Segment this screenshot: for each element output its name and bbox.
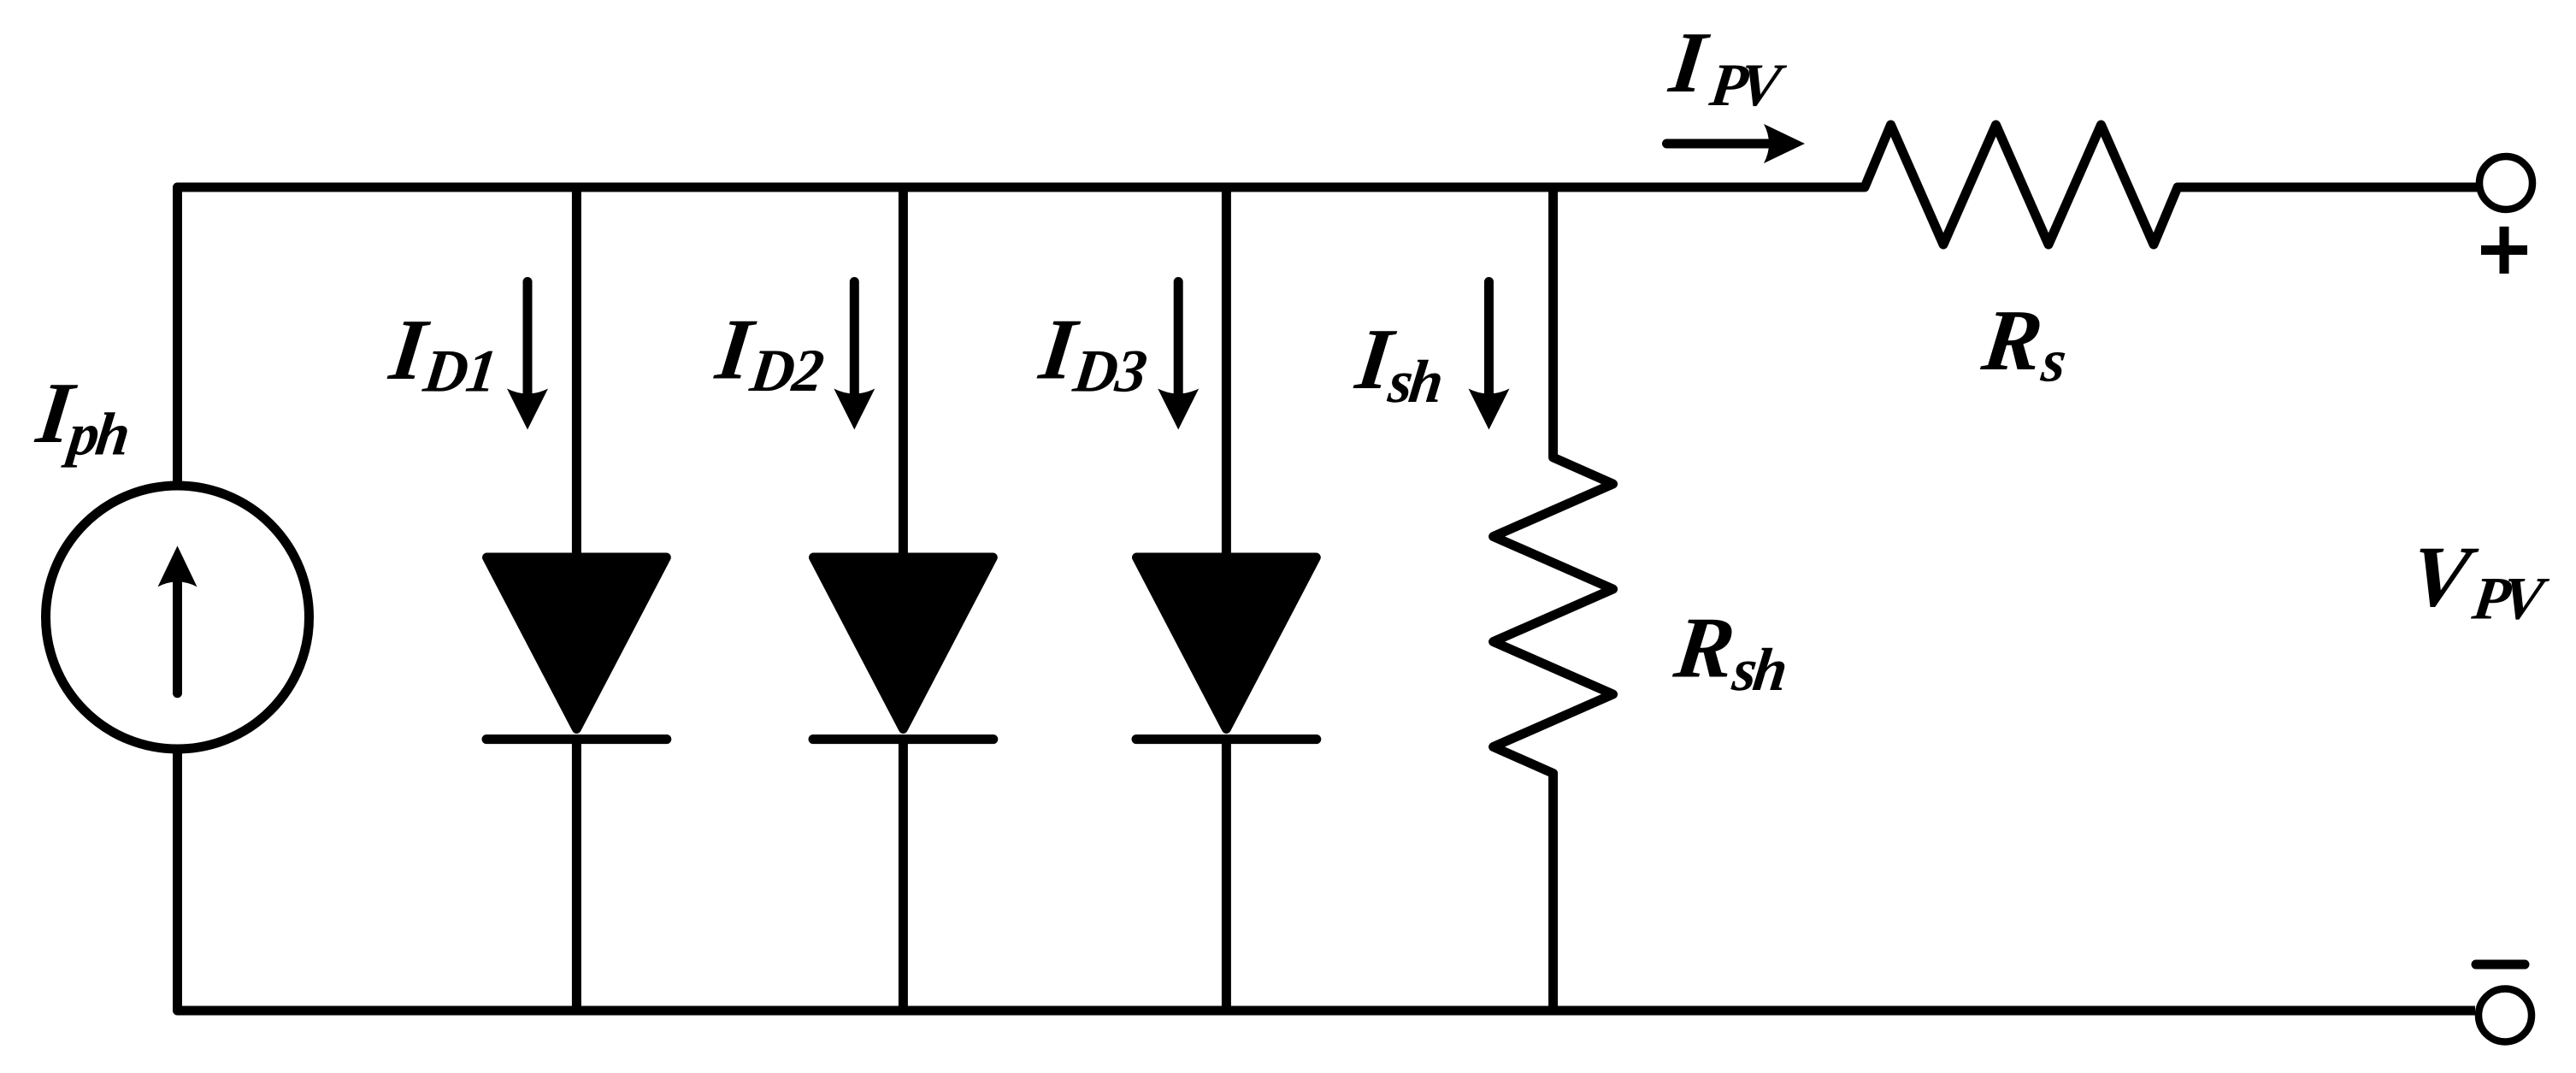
svg-text:R: R [1977,292,2048,389]
svg-text:D3: D3 [1070,338,1150,405]
svg-text:R: R [1669,600,1740,697]
svg-text:PV: PV [2468,565,2552,633]
svg-text:V: V [2406,529,2483,626]
svg-text:D2: D2 [746,337,827,404]
svg-text:sh: sh [1384,348,1445,416]
svg-text:PV: PV [1706,51,1789,119]
svg-text:sh: sh [1729,636,1789,704]
svg-text:I: I [1665,15,1714,111]
svg-text:s: s [2037,327,2070,395]
svg-text:D1: D1 [420,338,499,405]
